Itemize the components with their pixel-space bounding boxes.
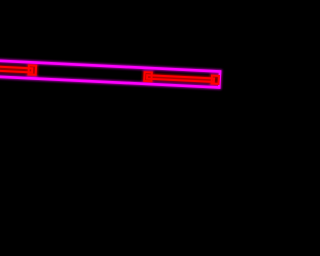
cap 3 glow [212,76,219,84]
cap 2 glow [144,72,152,81]
cap 1 (left tube right end cap) [28,65,36,75]
cap 3 (right tube right end cap) [212,76,219,84]
tube 1 (left red tube) [0,66,32,72]
cap 2 (right tube left end cap) [144,72,152,81]
fixture box glow [0,60,220,87]
cap 1 glow [28,65,36,75]
fixture bounding box (magenta) [0,60,220,87]
tube 2 glow [147,75,214,82]
tube 1 glow [0,66,32,72]
tube 2 (right red tube) [147,75,214,82]
glow layer [0,60,220,87]
